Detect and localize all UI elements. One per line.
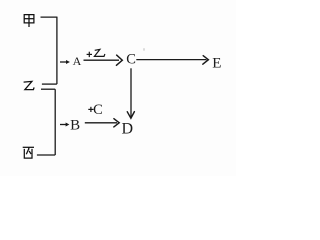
svg-text:D: D: [122, 121, 134, 138]
svg-text:B: B: [70, 118, 80, 134]
svg-text:C: C: [93, 102, 103, 118]
svg-text:A: A: [73, 54, 82, 68]
svg-text:C: C: [126, 52, 136, 68]
svg-text:E: E: [212, 56, 221, 72]
